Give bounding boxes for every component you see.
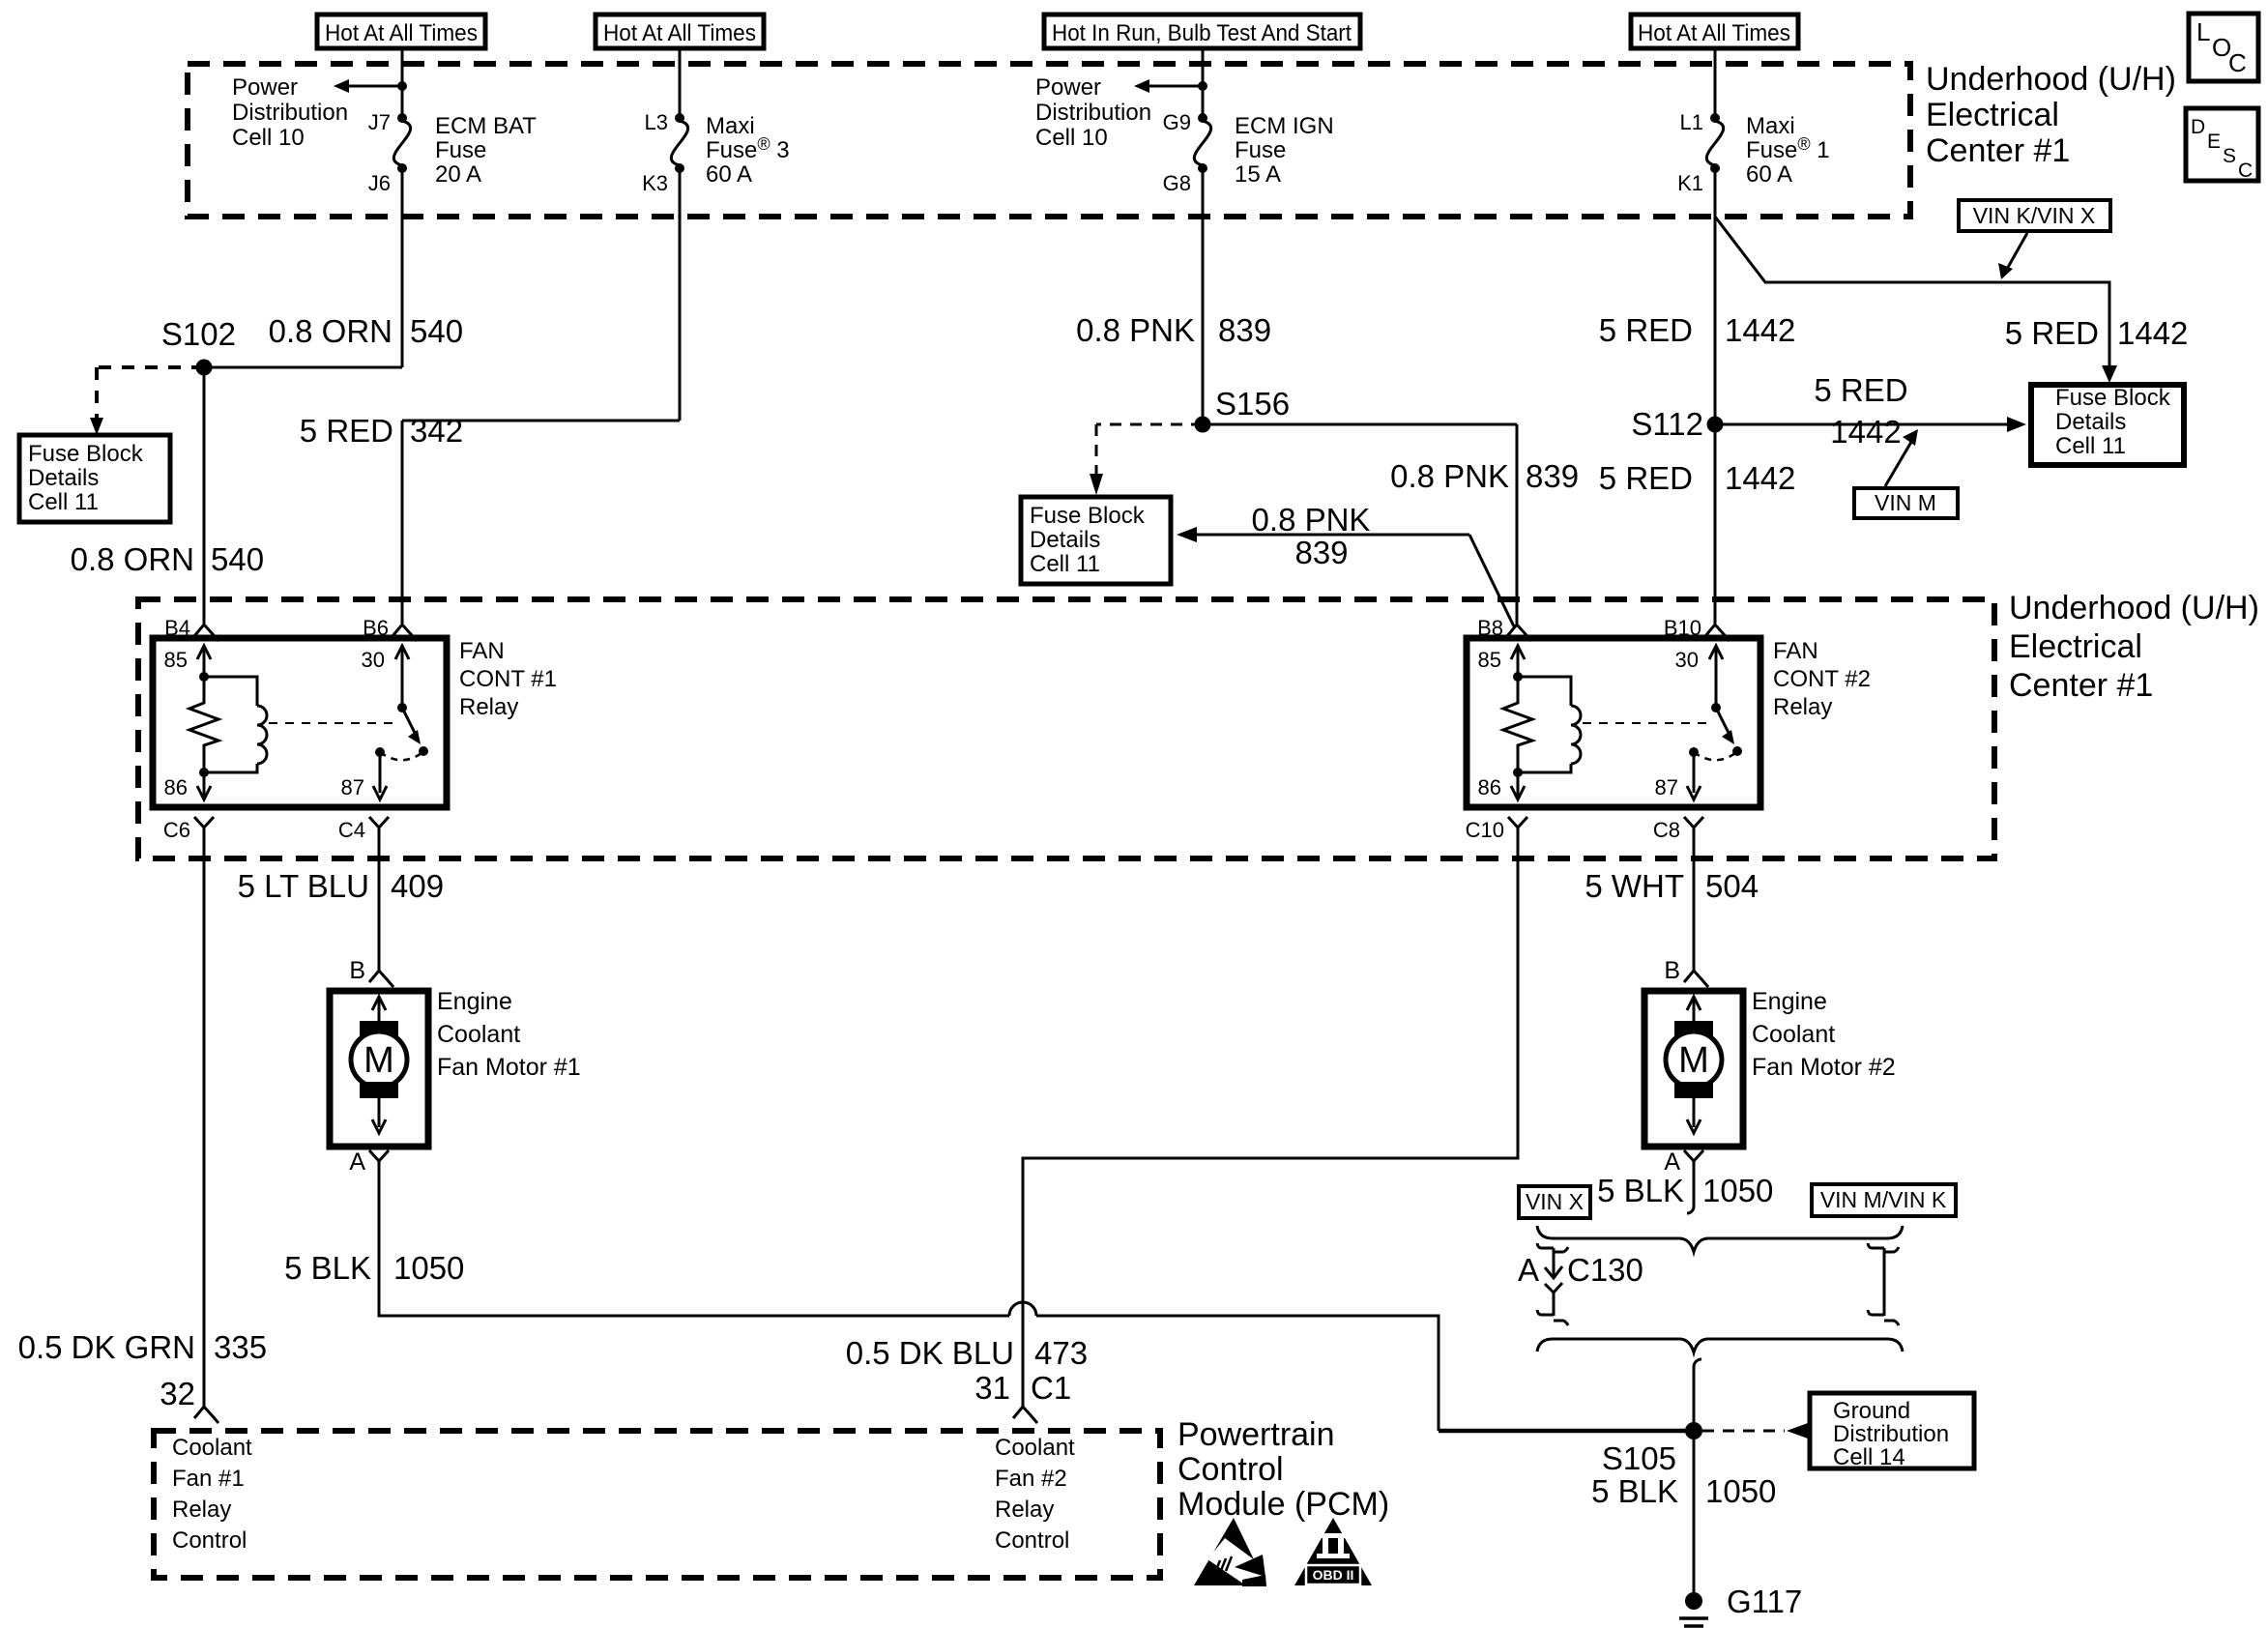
svg-text:5 BLK: 5 BLK bbox=[1597, 1173, 1684, 1208]
svg-text:Cell 11: Cell 11 bbox=[2055, 433, 2126, 459]
svg-text:C130: C130 bbox=[1567, 1252, 1643, 1288]
svg-text:473: 473 bbox=[1034, 1335, 1088, 1371]
svg-text:86: 86 bbox=[1478, 775, 1501, 799]
svg-text:Distribution: Distribution bbox=[232, 100, 348, 126]
svg-text:L3: L3 bbox=[645, 110, 668, 134]
svg-text:G117: G117 bbox=[1727, 1584, 1802, 1619]
svg-text:504: 504 bbox=[1705, 868, 1759, 904]
svg-text:Distribution: Distribution bbox=[1833, 1421, 1949, 1447]
svg-text:VIN M/VIN K: VIN M/VIN K bbox=[1820, 1187, 1947, 1212]
svg-text:1442: 1442 bbox=[1725, 312, 1795, 348]
svg-text:85: 85 bbox=[164, 648, 188, 672]
svg-text:Center #1: Center #1 bbox=[2009, 667, 2153, 704]
svg-text:VIN X: VIN X bbox=[1526, 1189, 1584, 1214]
svg-text:Cell 11: Cell 11 bbox=[28, 489, 99, 515]
svg-text:ECM IGN: ECM IGN bbox=[1235, 113, 1334, 139]
svg-text:K3: K3 bbox=[642, 171, 668, 195]
svg-text:Fuse® 1: Fuse® 1 bbox=[1746, 134, 1830, 163]
svg-text:J7: J7 bbox=[368, 110, 391, 134]
svg-text:VIN K/VIN X: VIN K/VIN X bbox=[1973, 203, 2096, 228]
svg-text:85: 85 bbox=[1478, 648, 1501, 672]
svg-text:Hot At All Times: Hot At All Times bbox=[603, 20, 756, 46]
svg-text:Hot At All Times: Hot At All Times bbox=[1638, 20, 1790, 46]
svg-text:Cell 11: Cell 11 bbox=[1030, 551, 1100, 577]
svg-text:5 WHT: 5 WHT bbox=[1585, 868, 1684, 904]
svg-text:C1: C1 bbox=[1031, 1370, 1071, 1406]
svg-text:Ground: Ground bbox=[1833, 1398, 1910, 1424]
svg-text:Fan Motor #2: Fan Motor #2 bbox=[1752, 1054, 1896, 1081]
svg-text:0.5 DK GRN: 0.5 DK GRN bbox=[18, 1329, 195, 1365]
svg-text:0.8 ORN: 0.8 ORN bbox=[269, 313, 393, 349]
svg-text:30: 30 bbox=[1675, 648, 1699, 672]
svg-text:K1: K1 bbox=[1677, 171, 1703, 195]
svg-text:Control: Control bbox=[172, 1527, 247, 1554]
svg-text:OBD II: OBD II bbox=[1313, 1567, 1354, 1583]
svg-text:A: A bbox=[1518, 1252, 1539, 1288]
svg-text:Maxi: Maxi bbox=[706, 113, 755, 139]
svg-text:S105: S105 bbox=[1602, 1440, 1676, 1476]
svg-text:5 RED: 5 RED bbox=[1814, 372, 1907, 408]
svg-text:C8: C8 bbox=[1653, 818, 1680, 842]
svg-text:FAN: FAN bbox=[1773, 638, 1818, 664]
svg-text:Hot At All Times: Hot At All Times bbox=[325, 20, 478, 46]
svg-text:5 LT BLU: 5 LT BLU bbox=[238, 868, 369, 904]
svg-text:839: 839 bbox=[1294, 535, 1348, 570]
svg-text:Maxi: Maxi bbox=[1746, 113, 1795, 139]
svg-text:15 A: 15 A bbox=[1235, 161, 1281, 188]
svg-text:87: 87 bbox=[1655, 775, 1678, 799]
svg-text:Engine: Engine bbox=[1752, 988, 1827, 1015]
svg-text:Fuse Block: Fuse Block bbox=[2055, 385, 2171, 411]
svg-text:Center #1: Center #1 bbox=[1926, 132, 2070, 169]
svg-text:A: A bbox=[349, 1148, 365, 1176]
svg-text:0.8 PNK: 0.8 PNK bbox=[1252, 502, 1371, 538]
svg-text:B: B bbox=[349, 957, 365, 984]
svg-text:A: A bbox=[1664, 1148, 1680, 1176]
svg-text:C10: C10 bbox=[1466, 818, 1504, 842]
svg-text:409: 409 bbox=[391, 868, 444, 904]
svg-text:Relay: Relay bbox=[459, 694, 518, 720]
svg-text:1050: 1050 bbox=[1702, 1173, 1773, 1208]
svg-text:Distribution: Distribution bbox=[1035, 100, 1151, 126]
svg-text:30: 30 bbox=[362, 648, 385, 672]
svg-text:5 RED: 5 RED bbox=[1599, 312, 1693, 348]
svg-text:Coolant: Coolant bbox=[437, 1021, 520, 1048]
svg-text:87: 87 bbox=[341, 775, 364, 799]
svg-text:Hot In Run, Bulb Test And Star: Hot In Run, Bulb Test And Start bbox=[1052, 20, 1352, 46]
svg-text:Fuse: Fuse bbox=[1235, 137, 1286, 163]
svg-text:Fan #1: Fan #1 bbox=[172, 1466, 245, 1492]
svg-text:Relay: Relay bbox=[1773, 694, 1832, 720]
svg-text:5 RED: 5 RED bbox=[1599, 460, 1693, 496]
svg-text:Cell 10: Cell 10 bbox=[232, 125, 305, 151]
svg-text:L1: L1 bbox=[1680, 110, 1703, 134]
svg-text:FAN: FAN bbox=[459, 638, 505, 664]
svg-text:M: M bbox=[1678, 1040, 1709, 1081]
svg-text:S156: S156 bbox=[1215, 386, 1290, 422]
svg-text:Engine: Engine bbox=[437, 988, 512, 1015]
svg-text:540: 540 bbox=[410, 313, 463, 349]
svg-text:839: 839 bbox=[1526, 458, 1579, 494]
svg-text:Fuse® 3: Fuse® 3 bbox=[706, 134, 790, 163]
svg-text:0.8 PNK: 0.8 PNK bbox=[1076, 312, 1195, 348]
svg-text:Power: Power bbox=[232, 74, 298, 101]
svg-text:S: S bbox=[2223, 145, 2236, 167]
svg-text:E: E bbox=[2207, 131, 2221, 153]
svg-text:60 A: 60 A bbox=[1746, 161, 1792, 188]
svg-text:Underhood (U/H): Underhood (U/H) bbox=[1926, 61, 2176, 98]
svg-text:342: 342 bbox=[410, 413, 463, 449]
svg-text:Relay: Relay bbox=[995, 1497, 1054, 1523]
svg-text:32: 32 bbox=[160, 1376, 195, 1411]
svg-text:Fuse Block: Fuse Block bbox=[28, 441, 144, 467]
svg-text:M: M bbox=[363, 1040, 394, 1081]
svg-text:1050: 1050 bbox=[393, 1250, 464, 1286]
svg-text:B: B bbox=[1664, 957, 1680, 984]
svg-text:540: 540 bbox=[211, 541, 264, 577]
svg-text:C6: C6 bbox=[163, 818, 190, 842]
svg-text:5 RED: 5 RED bbox=[2005, 315, 2099, 351]
svg-text:31: 31 bbox=[974, 1370, 1010, 1406]
svg-text:S102: S102 bbox=[161, 316, 236, 352]
svg-text:0.5 DK BLU: 0.5 DK BLU bbox=[846, 1335, 1014, 1371]
svg-text:1442: 1442 bbox=[2117, 315, 2188, 351]
svg-text:Cell 10: Cell 10 bbox=[1035, 125, 1108, 151]
svg-text:Details: Details bbox=[28, 465, 99, 491]
svg-text:Details: Details bbox=[1030, 527, 1100, 553]
svg-text:Control: Control bbox=[1178, 1451, 1284, 1488]
svg-text:839: 839 bbox=[1218, 312, 1271, 348]
svg-text:G9: G9 bbox=[1163, 110, 1191, 134]
svg-text:Coolant: Coolant bbox=[172, 1435, 252, 1461]
svg-text:5 RED: 5 RED bbox=[300, 413, 393, 449]
svg-text:VIN M: VIN M bbox=[1875, 490, 1936, 515]
svg-text:CONT #1: CONT #1 bbox=[459, 666, 557, 692]
svg-text:1442: 1442 bbox=[1830, 414, 1901, 450]
svg-text:86: 86 bbox=[164, 775, 188, 799]
svg-text:Module (PCM): Module (PCM) bbox=[1178, 1486, 1389, 1523]
svg-text:C: C bbox=[2228, 48, 2247, 77]
svg-text:60 A: 60 A bbox=[706, 161, 752, 188]
svg-text:0.8 ORN: 0.8 ORN bbox=[71, 541, 194, 577]
svg-text:G8: G8 bbox=[1163, 171, 1191, 195]
svg-text:Powertrain: Powertrain bbox=[1178, 1416, 1335, 1453]
svg-text:Control: Control bbox=[995, 1527, 1069, 1554]
svg-text:335: 335 bbox=[214, 1329, 267, 1365]
svg-text:5 BLK: 5 BLK bbox=[284, 1250, 371, 1286]
svg-text:Fan Motor #1: Fan Motor #1 bbox=[437, 1054, 581, 1081]
svg-text:Fan #2: Fan #2 bbox=[995, 1466, 1067, 1492]
svg-text:Underhood (U/H): Underhood (U/H) bbox=[2009, 590, 2259, 626]
svg-text:L: L bbox=[2196, 17, 2210, 46]
svg-text:20 A: 20 A bbox=[435, 161, 481, 188]
svg-text:Details: Details bbox=[2055, 409, 2126, 435]
svg-text:C4: C4 bbox=[338, 818, 365, 842]
svg-text:1050: 1050 bbox=[1705, 1473, 1776, 1509]
svg-text:Fuse Block: Fuse Block bbox=[1030, 503, 1146, 529]
svg-text:Power: Power bbox=[1035, 74, 1101, 101]
svg-text:0.8 PNK: 0.8 PNK bbox=[1390, 458, 1509, 494]
svg-text:Cell 14: Cell 14 bbox=[1833, 1444, 1905, 1470]
svg-text:C: C bbox=[2238, 160, 2253, 182]
svg-text:ECM BAT: ECM BAT bbox=[435, 113, 537, 139]
svg-text:Electrical: Electrical bbox=[1926, 97, 2059, 133]
svg-text:Coolant: Coolant bbox=[995, 1435, 1075, 1461]
svg-text:D: D bbox=[2191, 116, 2205, 138]
svg-text:1442: 1442 bbox=[1725, 460, 1795, 496]
svg-text:J6: J6 bbox=[368, 171, 391, 195]
svg-text:CONT #2: CONT #2 bbox=[1773, 666, 1871, 692]
svg-text:Relay: Relay bbox=[172, 1497, 231, 1523]
svg-text:Fuse: Fuse bbox=[435, 137, 486, 163]
svg-text:5 BLK: 5 BLK bbox=[1591, 1473, 1678, 1509]
svg-text:S112: S112 bbox=[1631, 406, 1703, 442]
svg-text:Coolant: Coolant bbox=[1752, 1021, 1835, 1048]
svg-text:Electrical: Electrical bbox=[2009, 628, 2142, 665]
